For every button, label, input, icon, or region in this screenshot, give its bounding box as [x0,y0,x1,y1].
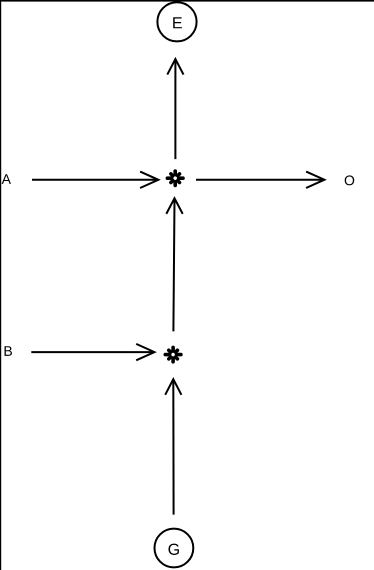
star node U2 [165,347,181,361]
star node U1 [167,171,183,185]
node G [155,529,194,568]
arrow from A to star node U1 [32,172,158,188]
arrow from star node U2 to star node U1 [166,198,182,331]
node O label [345,175,355,185]
arrow from star node U1 to O [196,172,324,188]
arrow from B to star node U2 [31,344,154,360]
arrow from star node U1 to node E [167,59,183,159]
node B label [5,346,12,356]
node A label [2,174,11,184]
node E [157,2,196,41]
arrow from node G to star node U2 [165,379,181,514]
